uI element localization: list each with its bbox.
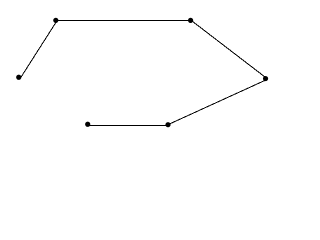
node D (right vertex dot) xyxy=(263,76,268,81)
node F (bottom-left vertex dot) xyxy=(85,122,90,127)
wire A-C (upper-left diagonal edge) xyxy=(20,22,57,80)
node B (top-right vertex dot) xyxy=(188,18,193,23)
node C (left vertex dot) xyxy=(16,75,21,80)
wire E-F (bottom horizontal edge) xyxy=(88,125,168,127)
node A (top-left vertex dot) xyxy=(53,18,58,23)
node E (bottom-middle vertex dot) xyxy=(165,122,170,127)
wire A-B (top horizontal edge) xyxy=(54,20,192,22)
wire B-D (upper-right diagonal edge) xyxy=(191,20,266,78)
wire D-E (lower-right diagonal edge) xyxy=(168,80,266,125)
